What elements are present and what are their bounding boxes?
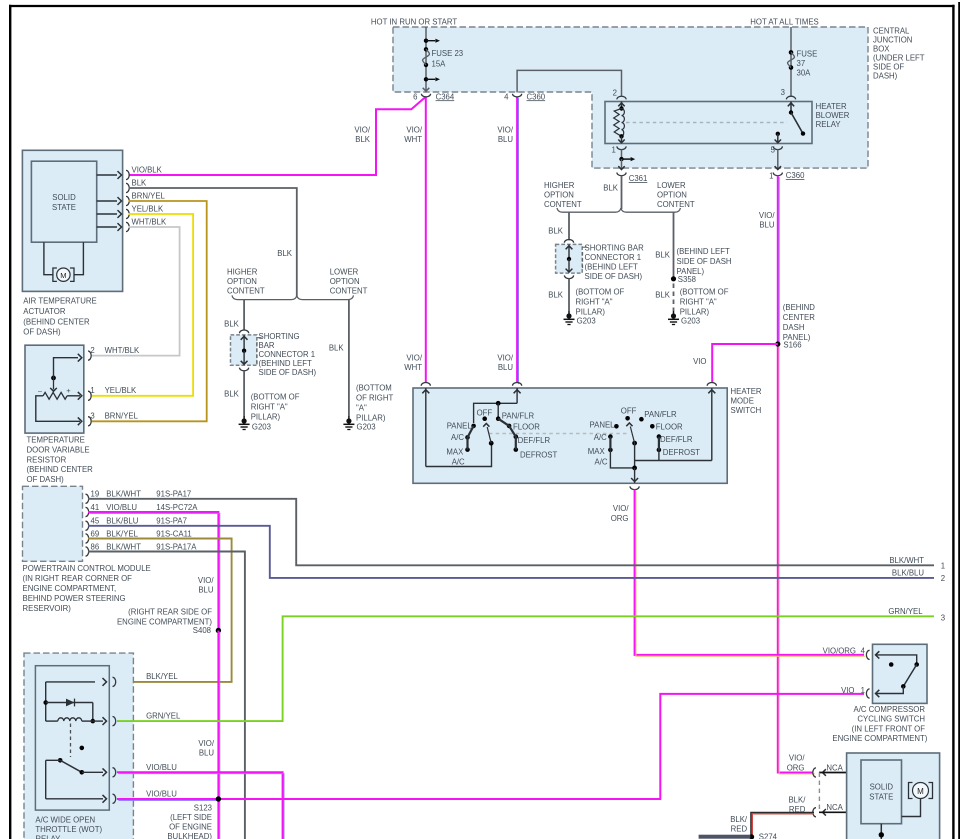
ground G203 (middle higher) (564, 311, 596, 326)
svg-text:91S-PA7: 91S-PA7 (156, 517, 187, 526)
svg-text:3: 3 (781, 88, 785, 97)
central junction box label (873, 27, 925, 81)
svg-text:SHORTING: SHORTING (259, 332, 300, 341)
resistor potentiometer (36, 354, 82, 425)
svg-text:(IN LEFT FRONT OF: (IN LEFT FRONT OF (852, 724, 926, 733)
wire VIO/ORG mode switch to cycling switch pin 4 (635, 489, 864, 655)
svg-text:BLK: BLK (224, 390, 240, 399)
svg-text:ACTUATOR: ACTUATOR (23, 307, 66, 316)
A/C wide open throttle relay (dashed box) (24, 653, 133, 839)
svg-text:TEMPERATURE: TEMPERATURE (27, 436, 85, 445)
WOT relay coil and diode (43, 682, 95, 723)
svg-text:C360: C360 (786, 171, 805, 180)
wire BLK/RED S274 to clutch (752, 813, 815, 837)
svg-text:PILLAR): PILLAR) (251, 413, 281, 422)
svg-text:FUSE: FUSE (797, 50, 818, 59)
svg-text:ENGINE COMPARTMENT,: ENGINE COMPARTMENT, (23, 584, 117, 593)
svg-text:THROTTLE (WOT): THROTTLE (WOT) (35, 825, 102, 834)
svg-text:BLK/YEL: BLK/YEL (106, 529, 138, 538)
label BLK/WHT circuit 1 (889, 556, 945, 571)
svg-text:RED: RED (731, 825, 748, 834)
svg-text:91S-CA11: 91S-CA11 (156, 529, 191, 538)
svg-text:BLK: BLK (277, 249, 293, 258)
svg-text:BRN/YEL: BRN/YEL (105, 412, 139, 421)
actuator label (23, 297, 96, 337)
svg-text:BLK: BLK (655, 291, 671, 300)
actuator pin BRN/YEL (97, 192, 166, 206)
A/C clutch outer box (847, 753, 940, 839)
label VIO/WHT upper (404, 126, 423, 145)
wire VIO/BLU PCM pin 41 to S408 (88, 512, 218, 631)
svg-text:C360: C360 (527, 92, 546, 101)
shorting bar connector 1 label (middle) (585, 244, 645, 282)
resistor label (27, 436, 94, 485)
label lower option content (middle) (657, 181, 695, 209)
svg-text:BLU: BLU (498, 135, 514, 144)
svg-text:VIO/: VIO/ (759, 211, 775, 220)
svg-text:VIO/: VIO/ (406, 126, 422, 135)
label higher option content (middle) (544, 181, 582, 209)
svg-text:PAN/FLR: PAN/FLR (502, 411, 535, 420)
svg-text:BLK/WHT: BLK/WHT (106, 542, 141, 551)
svg-text:91S-PA17: 91S-PA17 (156, 490, 191, 499)
svg-text:BULKHEAD): BULKHEAD) (167, 832, 212, 839)
splice S358 (671, 275, 696, 284)
label VIO/BLU lower (497, 354, 513, 373)
A/C clutch solid state box (861, 760, 902, 824)
svg-text:ENGINE COMPARTMENT): ENGINE COMPARTMENT) (117, 617, 212, 626)
svg-text:GRN/YEL: GRN/YEL (888, 607, 923, 616)
svg-text:SOLID: SOLID (52, 193, 76, 202)
label behind center dash panel (783, 303, 815, 342)
option content brace (left) (232, 295, 354, 299)
svg-text:BLK: BLK (548, 291, 564, 300)
svg-text:HOT AT ALL TIMES: HOT AT ALL TIMES (750, 18, 818, 27)
svg-text:MODE: MODE (731, 396, 754, 405)
svg-text:G203: G203 (252, 423, 271, 432)
resistor pin 1 connector (88, 386, 137, 400)
label VIO/BLU (right) (759, 211, 775, 230)
actuator pin WHT/BLK (97, 218, 167, 232)
option content brace (middle) (557, 208, 680, 212)
relay pin 5 connector (771, 145, 783, 169)
mode switch bottom connector (630, 486, 639, 489)
label behind left side of dash panel (677, 247, 732, 276)
svg-text:HOT IN RUN OR START: HOT IN RUN OR START (371, 18, 457, 27)
PCM pin 86 connector (86, 542, 198, 556)
svg-text:RESISTOR: RESISTOR (27, 455, 67, 464)
cycling switch internals (876, 651, 920, 697)
svg-text:RIGHT "A": RIGHT "A" (680, 298, 717, 307)
svg-text:(LEFT SIDE: (LEFT SIDE (170, 813, 212, 822)
label right rear side of engine compartment (117, 608, 212, 627)
svg-text:A/C WIDE OPEN: A/C WIDE OPEN (35, 815, 95, 824)
wire BLK/WHT PCM pin 86 (88, 552, 245, 839)
svg-text:BLK: BLK (603, 184, 619, 193)
svg-text:JUNCTION: JUNCTION (873, 35, 912, 44)
mode switch left wiper (483, 424, 493, 446)
powertrain control module (23, 486, 83, 561)
label VIO/WHT lower (404, 354, 423, 373)
dashed wire BLK below S358 (655, 284, 673, 312)
label bottom of right A pillar (left lower) (356, 384, 393, 423)
svg-text:RIGHT "A": RIGHT "A" (251, 403, 288, 412)
svg-text:4: 4 (504, 92, 509, 101)
svg-text:HIGHER: HIGHER (227, 268, 258, 277)
splice S408 (193, 626, 221, 635)
WOT relay pin GRN/YEL (93, 712, 181, 726)
wire BLK from C361 to option brace (middle) (603, 176, 621, 210)
mode switch right contact chain (608, 416, 661, 468)
label VIO/BLU (at S408) (198, 576, 214, 595)
svg-text:VIO/BLU: VIO/BLU (146, 789, 177, 798)
wire VIO/WHT C364 to heater mode switch (425, 97, 427, 383)
splice S166 (775, 341, 801, 350)
svg-text:1: 1 (769, 172, 773, 181)
clutch ground lead (879, 824, 884, 839)
svg-text:BLK: BLK (355, 135, 371, 144)
svg-text:A/C: A/C (595, 457, 608, 466)
svg-text:SIDE OF DASH): SIDE OF DASH) (259, 368, 317, 377)
svg-text:CONTENT: CONTENT (330, 287, 368, 296)
svg-text:OF ENGINE: OF ENGINE (169, 823, 212, 832)
svg-text:A/C: A/C (451, 433, 464, 442)
svg-text:OFF: OFF (621, 407, 637, 416)
svg-text:OF DASH): OF DASH) (27, 475, 65, 484)
svg-text:BEHIND POWER STEERING: BEHIND POWER STEERING (23, 594, 126, 603)
wire GRN/YEL WOT relay to circuit 3 (117, 616, 934, 721)
svg-text:BLU: BLU (759, 221, 775, 230)
label bottom of right A pillar (middle higher) (576, 288, 625, 317)
svg-text:S123: S123 (194, 804, 212, 813)
svg-text:WHT/BLK: WHT/BLK (132, 218, 167, 227)
svg-text:(BEHIND CENTER: (BEHIND CENTER (23, 317, 90, 326)
svg-text:OFF: OFF (477, 408, 493, 417)
WOT relay pin VIO/BLU lower (46, 789, 178, 803)
actuator motor M (44, 242, 84, 281)
svg-text:2: 2 (90, 346, 94, 355)
svg-text:(BEHIND CENTER: (BEHIND CENTER (27, 465, 94, 474)
wire BLK/BLU PCM pin 45 (88, 526, 934, 578)
svg-text:1: 1 (90, 386, 94, 395)
svg-text:4: 4 (861, 647, 866, 656)
wire from C360 pin 4 to relay coil pin 2 (517, 70, 621, 96)
svg-text:SHORTING BAR: SHORTING BAR (585, 244, 645, 253)
fuse 23 15A (423, 27, 464, 91)
svg-text:NCA: NCA (826, 803, 843, 812)
connector C360 pin 1 (769, 171, 805, 181)
label VIO/ORG (at clutch) (787, 754, 806, 773)
svg-text:G203: G203 (681, 317, 700, 326)
svg-text:OPTION: OPTION (544, 191, 574, 200)
svg-text:SWITCH: SWITCH (731, 406, 762, 415)
svg-text:"A": "A" (356, 404, 367, 413)
svg-text:WHT: WHT (404, 363, 422, 372)
actuator pin YEL/BLK (97, 205, 164, 219)
svg-text:VIO/: VIO/ (198, 739, 214, 748)
wire VIO/BLU S408 to S123 (217, 631, 219, 839)
clutch NCA pin 2 (813, 803, 848, 817)
svg-text:1: 1 (611, 145, 615, 154)
svg-text:C364: C364 (436, 92, 455, 101)
label VIO/BLU (S408-S123) (198, 739, 214, 758)
svg-text:A/C COMPRESSOR: A/C COMPRESSOR (854, 705, 926, 714)
mode switch output junction (631, 466, 638, 484)
svg-text:ORG: ORG (787, 763, 805, 772)
svg-text:(RIGHT REAR SIDE OF: (RIGHT REAR SIDE OF (128, 608, 212, 617)
WOT relay label (35, 815, 102, 839)
mode switch right pin VIO path (635, 388, 716, 461)
svg-text:91S-PA17A: 91S-PA17A (156, 542, 197, 551)
heater blower relay label (816, 102, 850, 129)
svg-text:VIO/: VIO/ (198, 576, 214, 585)
svg-text:VIO: VIO (693, 357, 706, 366)
svg-text:BOX: BOX (873, 44, 890, 53)
wire BLK higher option (left branch) (224, 300, 244, 331)
svg-text:BLK/: BLK/ (788, 796, 806, 805)
wire BLK/YEL PCM pin 69 to WOT relay (88, 539, 232, 682)
svg-text:PILLAR): PILLAR) (576, 308, 606, 317)
svg-text:PANEL: PANEL (447, 422, 473, 431)
svg-text:CONTENT: CONTENT (657, 200, 695, 209)
svg-text:PILLAR): PILLAR) (680, 308, 710, 317)
svg-text:BLK: BLK (132, 179, 148, 188)
mode switch left labels (446, 408, 557, 466)
WOT relay pin BLK/YEL (46, 672, 179, 687)
svg-text:VIO/BLK: VIO/BLK (132, 166, 163, 175)
mode switch right labels (588, 407, 700, 467)
svg-text:VIO/: VIO/ (613, 504, 629, 513)
clutch NCA pin 1 (813, 763, 848, 777)
svg-text:RELAY: RELAY (35, 835, 61, 839)
ground G203 (left lower) (343, 416, 375, 432)
svg-text:A/C: A/C (452, 458, 465, 467)
svg-text:G203: G203 (357, 423, 376, 432)
svg-text:DOOR VARIABLE: DOOR VARIABLE (27, 445, 90, 454)
clutch connector dashed line (818, 773, 820, 813)
svg-text:1: 1 (861, 686, 865, 695)
mode switch left contact chain (465, 416, 518, 452)
WOT relay inner box (35, 666, 109, 810)
svg-text:VIO/: VIO/ (406, 354, 422, 363)
ground G203 (middle lower) (668, 311, 700, 326)
svg-text:WHT/BLK: WHT/BLK (105, 346, 140, 355)
wire BLK/WHT PCM pin 19 (88, 499, 934, 566)
PCM pin 69 connector (86, 529, 192, 543)
wire BLK higher option (middle branch) (548, 212, 569, 240)
svg-text:MAX: MAX (446, 447, 464, 456)
svg-text:DEFROST: DEFROST (520, 451, 557, 460)
svg-text:BRN/YEL: BRN/YEL (132, 192, 166, 201)
central junction box (dashed outline, fill) (393, 27, 868, 168)
heater mode switch (413, 388, 727, 483)
svg-text:BLK/BLU: BLK/BLU (892, 568, 924, 577)
svg-text:14S-PC72A: 14S-PC72A (156, 503, 198, 512)
svg-text:S274: S274 (759, 833, 778, 839)
label higher option content (left) (227, 268, 265, 296)
mode switch connector arcs (top pins) (421, 383, 716, 386)
cycling switch pin 4 (823, 646, 870, 659)
label BLK/RED (lower) (730, 815, 748, 834)
svg-text:BLK/BLU: BLK/BLU (106, 517, 138, 526)
svg-text:VIO/ORG: VIO/ORG (823, 646, 856, 655)
svg-text:BLK/: BLK/ (730, 815, 748, 824)
svg-text:OPTION: OPTION (657, 191, 687, 200)
resistor pin 2 connector (88, 346, 140, 360)
svg-text:BLK/WHT: BLK/WHT (106, 490, 141, 499)
svg-text:CYCLING SWITCH: CYCLING SWITCH (857, 715, 925, 724)
svg-text:2: 2 (941, 574, 945, 583)
svg-text:PAN/FLR: PAN/FLR (644, 410, 677, 419)
svg-text:OF RIGHT: OF RIGHT (356, 394, 393, 403)
label VIO/ORG (below mode switch) (611, 504, 630, 523)
svg-text:S166: S166 (783, 341, 801, 350)
svg-text:PILLAR): PILLAR) (356, 414, 386, 423)
clutch motor M (902, 783, 933, 817)
shorting bar connector 1 label (left) (259, 332, 317, 377)
svg-text:STATE: STATE (52, 203, 76, 212)
svg-text:(BEHIND LEFT: (BEHIND LEFT (259, 359, 313, 368)
svg-text:(IN RIGHT REAR CORNER OF: (IN RIGHT REAR CORNER OF (23, 574, 133, 583)
svg-text:FUSE 23: FUSE 23 (432, 49, 464, 58)
wire WHT/BLK actuator to resistor pin 2 (92, 227, 180, 356)
svg-text:DEFROST: DEFROST (663, 448, 700, 457)
svg-text:A/C: A/C (594, 433, 607, 442)
svg-text:S358: S358 (678, 275, 696, 284)
label lower option content (left) (330, 268, 368, 296)
splice S274 (749, 833, 778, 839)
svg-text:LOWER: LOWER (330, 268, 359, 277)
wire VIO/BLU from C360 pin 1 to A/C clutch (777, 176, 779, 345)
svg-text:37: 37 (797, 59, 806, 68)
wire BLK lower option (left branch) (329, 300, 349, 416)
WOT relay switch (46, 746, 84, 799)
svg-text:(BOTTOM OF: (BOTTOM OF (576, 288, 625, 297)
shorting bar connector 1 (left) (231, 330, 262, 371)
heater mode switch label (731, 387, 762, 415)
svg-text:SIDE OF: SIDE OF (873, 62, 904, 71)
wire BLK to G203 (left higher) (224, 371, 244, 416)
svg-text:VIO/: VIO/ (497, 126, 513, 135)
svg-text:15A: 15A (432, 60, 447, 69)
label VIO/BLK (354, 126, 370, 145)
PCM pin 45 connector (86, 517, 187, 531)
svg-text:VIO/: VIO/ (497, 354, 513, 363)
svg-text:VIO/BLU: VIO/BLU (106, 503, 137, 512)
svg-text:2: 2 (613, 89, 617, 98)
svg-text:PANEL: PANEL (590, 421, 616, 430)
PCM pin 19 connector (86, 490, 192, 504)
WOT relay mechanical link (70, 724, 72, 758)
air temperature actuator (22, 150, 122, 291)
svg-text:CENTER: CENTER (783, 313, 815, 322)
svg-text:BLU: BLU (198, 586, 214, 595)
svg-text:OF DASH): OF DASH) (23, 328, 61, 337)
mode switch right wiper (626, 423, 637, 468)
svg-text:(UNDER LEFT: (UNDER LEFT (873, 53, 925, 62)
svg-text:OPTION: OPTION (227, 277, 257, 286)
wire VIO/BLU C360 to heater mode switch (516, 97, 518, 383)
svg-text:VIO: VIO (841, 686, 854, 695)
svg-text:OPTION: OPTION (330, 277, 360, 286)
resistor pin 3 connector (88, 412, 139, 426)
svg-text:HEATER: HEATER (731, 387, 762, 396)
wire BLK lower option (middle branch) to S358 (655, 212, 673, 279)
svg-text:(BEHIND: (BEHIND (783, 303, 815, 312)
svg-text:M: M (917, 787, 924, 796)
actuator pin BLK (126, 179, 147, 193)
ground G203 (left higher) (239, 416, 271, 432)
relay pin 1 connector C361 path (611, 140, 635, 170)
svg-text:BLOWER: BLOWER (816, 111, 850, 120)
connector C361 (617, 173, 647, 184)
svg-text:VIO/: VIO/ (354, 126, 370, 135)
svg-text:41: 41 (91, 503, 100, 512)
svg-text:DASH): DASH) (873, 71, 898, 80)
A/C compressor cycling switch (873, 644, 928, 703)
svg-text:YEL/BLK: YEL/BLK (105, 386, 137, 395)
svg-text:30A: 30A (797, 69, 812, 78)
PCM label (23, 564, 151, 613)
wire VIO/BLU WOT relay upper (117, 772, 283, 839)
wire VIO/BLU WOT relay lower to S123 and cycling switch (117, 798, 218, 800)
mode switch dashed gang link (489, 433, 628, 435)
mode switch left pin VIO/WHT path (422, 388, 491, 467)
wire BLK actuator to option brace (129, 188, 297, 296)
svg-text:69: 69 (91, 529, 100, 538)
svg-text:YEL/BLK: YEL/BLK (132, 205, 164, 214)
wire YEL/BLK actuator to resistor pin 1 (92, 214, 193, 396)
wire BLK to G203 (middle higher) (548, 279, 569, 311)
svg-text:ORG: ORG (611, 514, 629, 523)
svg-text:DEF/FLR: DEF/FLR (518, 436, 551, 445)
svg-text:FLOOR: FLOOR (513, 423, 540, 432)
svg-text:RED: RED (789, 805, 806, 814)
svg-text:SIDE OF DASH: SIDE OF DASH (677, 257, 732, 266)
wire VIO/BLK actuator to C364 (129, 97, 426, 175)
fuse 37 30A (788, 27, 818, 96)
svg-text:CONTENT: CONTENT (227, 287, 265, 296)
temperature door variable resistor (25, 345, 84, 433)
label BLK/BLU circuit 2 (892, 568, 945, 583)
svg-text:ENGINE COMPARTMENT): ENGINE COMPARTMENT) (832, 734, 927, 743)
relay switch pin 3 (775, 88, 806, 143)
connector C360 pin 4 (504, 92, 546, 101)
svg-text:CONNECTOR 1: CONNECTOR 1 (585, 253, 642, 262)
svg-text:(BEHIND LEFT: (BEHIND LEFT (585, 263, 639, 272)
svg-text:AIR TEMPERATURE: AIR TEMPERATURE (23, 297, 96, 306)
svg-text:+: + (66, 386, 71, 395)
svg-text:BLK/WHT: BLK/WHT (889, 556, 924, 565)
relay pin 2 connector (613, 89, 626, 100)
svg-text:(BEHIND LEFT: (BEHIND LEFT (677, 247, 731, 256)
svg-text:M: M (60, 271, 66, 280)
heater blower relay (605, 102, 812, 144)
connector C364 (413, 92, 455, 101)
svg-text:BLU: BLU (498, 363, 514, 372)
svg-text:BAR: BAR (259, 341, 275, 350)
svg-text:HIGHER: HIGHER (544, 181, 575, 190)
svg-text:BLK: BLK (224, 320, 240, 329)
svg-text:VIO/: VIO/ (789, 754, 805, 763)
svg-text:3: 3 (90, 412, 94, 421)
wire BRN/YEL actuator to resistor pin 3 (92, 201, 207, 421)
PCM pin 41 connector (86, 503, 199, 517)
label GRN/YEL circuit 3 (888, 607, 945, 623)
shorting bar connector 1 (middle) (556, 240, 587, 279)
svg-text:3: 3 (941, 614, 945, 623)
svg-text:CENTRAL: CENTRAL (873, 27, 910, 36)
